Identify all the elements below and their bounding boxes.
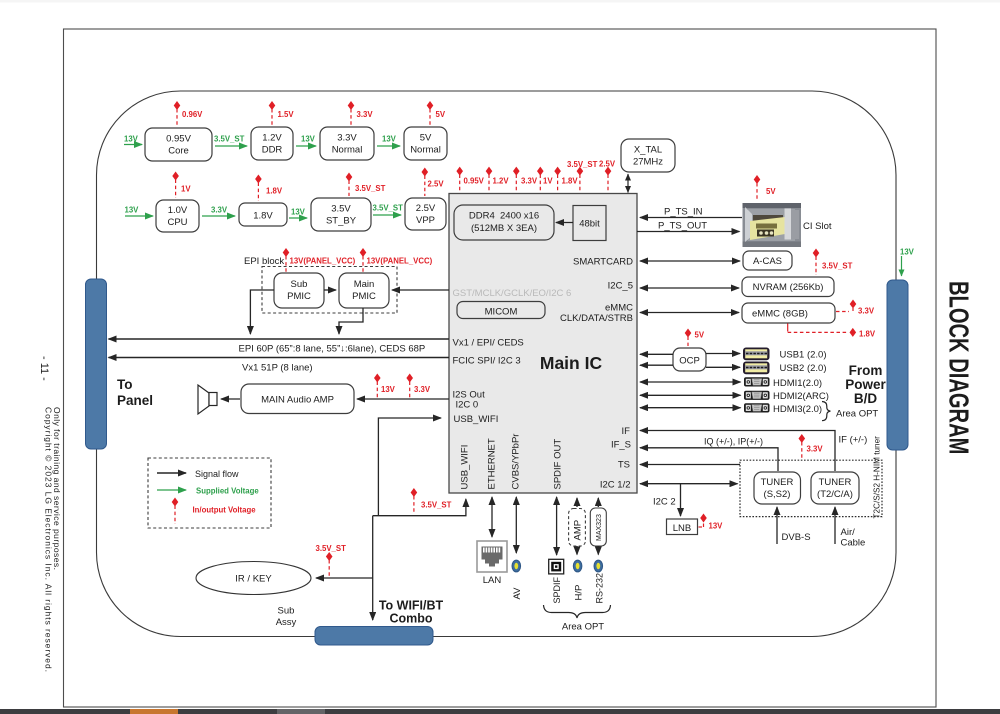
svg-text:DVB-S: DVB-S: [782, 532, 811, 543]
voltage diamond 0.96V: [174, 101, 203, 126]
block 3.5V ST_BY: [311, 198, 371, 231]
svg-text:P_TS_OUT: P_TS_OUT: [658, 221, 707, 232]
block Sub PMIC: [274, 273, 324, 308]
svg-text:13V: 13V: [381, 385, 396, 394]
svg-text:MAX323: MAX323: [596, 514, 603, 541]
voltage diamond 3.5V_ST nvram: [813, 249, 853, 276]
left board connector (To Panel): [86, 279, 107, 449]
svg-text:3.5V_ST: 3.5V_ST: [214, 135, 245, 144]
svg-text:HDMI2(ARC): HDMI2(ARC): [773, 391, 829, 402]
svg-text:5V: 5V: [436, 110, 446, 119]
block 0.95V Core: [145, 128, 212, 161]
block OCP: [673, 348, 706, 371]
svg-text:CI Slot: CI Slot: [803, 221, 832, 232]
HDMI3 connector icon: [744, 403, 770, 412]
voltage diamond 3.5V_ST wifi: [411, 488, 452, 514]
SPDIF optical jack: [549, 559, 564, 574]
svg-text:IF: IF: [622, 426, 631, 437]
LAN connector icon: [477, 541, 507, 572]
AMP dashed block: [569, 509, 586, 547]
svg-text:(T2/C/A): (T2/C/A): [817, 489, 853, 500]
wire CVBS to AV jack (double arrow): [515, 497, 517, 553]
voltage diamond 3.5V_ST row2: [346, 173, 386, 197]
AV jack: [512, 560, 521, 572]
svg-text:SMARTCARD: SMARTCARD: [573, 257, 633, 268]
svg-text:Sub: Sub: [278, 606, 295, 617]
wire IC to MAX323: [597, 498, 599, 507]
bottom board connector (Sub Assy): [315, 627, 433, 646]
svg-text:TUNER: TUNER: [761, 477, 794, 488]
block 3.3V Normal: [320, 127, 374, 160]
HDMI1 connector icon: [744, 377, 770, 386]
legend supplied voltage: [157, 487, 259, 496]
wire 48bit to DDR4: [556, 222, 573, 224]
svg-text:5V: 5V: [420, 133, 432, 144]
Area OPT brace bottom: [544, 605, 611, 618]
svg-text:Main: Main: [354, 279, 375, 290]
svg-text:DDR: DDR: [262, 145, 283, 156]
svg-text:1.8V: 1.8V: [266, 187, 283, 196]
svg-text:1.0V: 1.0V: [168, 205, 188, 216]
svg-text:Normal: Normal: [410, 145, 441, 156]
CI Slot photo: [743, 203, 802, 247]
svg-text:3.3V: 3.3V: [521, 177, 538, 186]
svg-text:2.5V: 2.5V: [428, 180, 445, 189]
svg-text:3.5V_ST: 3.5V_ST: [567, 160, 598, 169]
voltage diamond 2.5V ic: [599, 160, 616, 193]
svg-text:Supplied Voltage: Supplied Voltage: [196, 487, 259, 496]
wire OCP to IC line1: [640, 353, 673, 355]
wire OCP to USB1: [706, 353, 740, 355]
svg-text:3.5V_ST: 3.5V_ST: [421, 501, 452, 510]
wire Main IC to AMP: [357, 398, 449, 400]
wire HDMI1 (double arrow): [640, 381, 741, 383]
wire P_TS_OUT: [637, 221, 740, 232]
svg-text:(S,S2): (S,S2): [764, 489, 791, 500]
svg-text:3.5V_ST: 3.5V_ST: [355, 184, 386, 193]
svg-text:USB_WIFI: USB_WIFI: [460, 445, 471, 490]
supplied 3.3V arrow CPU to 1.8V: [202, 206, 235, 217]
svg-text:FCIC SPI/ I2C 3: FCIC SPI/ I2C 3: [453, 356, 521, 367]
block 1.2V DDR: [251, 127, 293, 160]
wire USB_WIFI from IC side: [378, 418, 441, 516]
Area OPT brace right: [822, 402, 830, 421]
block Main PMIC: [339, 273, 389, 308]
svg-text:Only for training and service: Only for training and service purposes.: [52, 407, 62, 570]
svg-text:Vx1 / EPI/ CEDS: Vx1 / EPI/ CEDS: [453, 338, 524, 349]
wire I2C 1/2 (double arrow): [640, 483, 738, 485]
13V green arrow into right connector: [900, 248, 915, 277]
svg-text:13V(PANEL_VCC): 13V(PANEL_VCC): [290, 257, 356, 266]
voltage diamond 5V: [427, 101, 446, 125]
svg-text:Copyright © 2023 LG Electronic: Copyright © 2023 LG Electronics Inc. All…: [44, 407, 54, 672]
svg-text:Area OPT: Area OPT: [562, 622, 604, 633]
svg-text:IF_S: IF_S: [611, 440, 631, 451]
block 2.5V VPP: [405, 198, 446, 230]
svg-text:TUNER: TUNER: [819, 477, 852, 488]
svg-text:13V: 13V: [709, 522, 724, 531]
svg-text:13V: 13V: [124, 135, 139, 144]
svg-text:CPU: CPU: [167, 217, 187, 228]
svg-text:RS-232: RS-232: [595, 573, 605, 604]
voltage diamond 3.5V_ST ic: [567, 160, 598, 192]
svg-text:3.5V: 3.5V: [331, 204, 351, 215]
wire OCP to USB2: [706, 366, 740, 368]
voltage diamond 13V lnb: [699, 514, 724, 531]
svg-text:5V: 5V: [695, 331, 705, 340]
svg-text:SPDIF OUT: SPDIF OUT: [553, 439, 564, 490]
To WIFI/BT Combo label: [379, 599, 444, 626]
svg-text:I2C_5: I2C_5: [608, 281, 633, 292]
wire SMARTCARD to A-CAS (double arrow): [640, 260, 740, 262]
svg-text:1V: 1V: [543, 177, 553, 186]
supplied 13V arrow DDR to 3.3V Normal: [296, 135, 316, 147]
supplied 13V arrow 1.8V to ST_BY: [289, 208, 307, 219]
voltage diamond 1V: [172, 172, 191, 199]
HDMI2 connector icon: [744, 391, 770, 400]
svg-text:PMIC: PMIC: [352, 291, 376, 302]
svg-text:Area OPT: Area OPT: [836, 409, 878, 420]
svg-text:3.3V: 3.3V: [337, 133, 357, 144]
svg-text:Power: Power: [845, 377, 886, 392]
svg-text:LAN: LAN: [483, 575, 502, 586]
svg-text:LNB: LNB: [673, 523, 691, 534]
svg-text:1V: 1V: [181, 185, 191, 194]
svg-text:Combo: Combo: [389, 612, 432, 626]
svg-text:B/D: B/D: [854, 391, 878, 406]
svg-text:GST/MCLK/GCLK/EO/I2C 6: GST/MCLK/GCLK/EO/I2C 6: [453, 288, 572, 299]
supplied 3.5V_ST arrow Core to DDR: [214, 135, 247, 147]
svg-text:1.8V: 1.8V: [859, 330, 876, 339]
svg-text:3.3V: 3.3V: [414, 385, 431, 394]
block 1.8V: [239, 203, 287, 226]
svg-text:13V(PANEL_VCC): 13V(PANEL_VCC): [367, 257, 433, 266]
svg-text:- 11 -: - 11 -: [38, 356, 50, 381]
svg-text:Cable: Cable: [841, 538, 866, 549]
svg-text:IR / KEY: IR / KEY: [235, 574, 272, 585]
svg-text:13V: 13V: [382, 135, 397, 144]
svg-text:H/P: H/P: [574, 585, 585, 601]
wire P_TS_IN: [640, 207, 742, 218]
svg-text:I2C 1/2: I2C 1/2: [600, 480, 631, 491]
svg-text:(512MB X 3EA): (512MB X 3EA): [471, 223, 537, 234]
voltage diamond 3.5V_ST irkey: [316, 544, 347, 576]
pin label eMMC CLK/DATA/STRB: [560, 303, 633, 325]
svg-text:IQ (+/-), IP(+/-): IQ (+/-), IP(+/-): [704, 437, 763, 447]
voltage diamond 1.8V row2: [255, 175, 283, 202]
wire I2C2 branch to LNB: [653, 484, 681, 516]
svg-text:BLOCK DIAGRAM: BLOCK DIAGRAM: [943, 281, 974, 454]
svg-text:1.8V: 1.8V: [253, 211, 273, 222]
voltage diamond 3.3V tuner: [799, 434, 824, 459]
wire MAX323 to RS-232 jack: [597, 546, 599, 555]
speaker icon: [198, 385, 217, 414]
svg-text:Sub: Sub: [291, 279, 308, 290]
svg-text:CVBS/YPbPr: CVBS/YPbPr: [511, 434, 522, 490]
legend dashed box: [148, 458, 271, 528]
wire AMP block to HP jack: [576, 546, 578, 555]
block TUNER (T2/C/A): [811, 472, 859, 504]
voltage diamond 3.3V amp: [406, 374, 430, 398]
48bit block: [573, 206, 606, 241]
EPI 60P bus: [109, 339, 450, 355]
DDR4 block: [454, 205, 554, 240]
wire Main IC to Main PMIC: [392, 289, 449, 291]
voltage diamond 1.8V ic: [554, 167, 578, 192]
board outline: [97, 91, 897, 637]
voltage diamond 1V ic: [537, 167, 553, 192]
svg-text:PMIC: PMIC: [287, 291, 311, 302]
USB1 connector icon: [743, 348, 770, 361]
voltage diamond 3.3V emmc: [836, 300, 875, 316]
wire AMP to speaker: [221, 398, 240, 400]
svg-text:13V: 13V: [301, 135, 316, 144]
wire TS: [640, 464, 740, 466]
bottom dark bar: [0, 709, 1000, 714]
block TUNER (S,S2): [754, 472, 801, 504]
svg-text:A-CAS: A-CAS: [753, 256, 782, 267]
svg-text:1.8V: 1.8V: [562, 177, 579, 186]
svg-text:3.5V_ST: 3.5V_ST: [373, 204, 404, 213]
svg-text:MAIN Audio AMP: MAIN Audio AMP: [261, 395, 334, 406]
svg-text:To: To: [117, 377, 133, 392]
svg-text:3.3V: 3.3V: [357, 110, 374, 119]
svg-text:eMMC (8GB): eMMC (8GB): [752, 309, 808, 320]
svg-text:USB_WIFI: USB_WIFI: [454, 414, 499, 425]
svg-text:USB1 (2.0): USB1 (2.0): [780, 350, 827, 361]
block LNB: [667, 519, 698, 535]
svg-text:In/output Voltage: In/output Voltage: [193, 506, 257, 515]
voltage diamond 1.8V emmc: [788, 324, 876, 339]
wire HDMI2 (double arrow): [640, 394, 741, 396]
Main IC body: [449, 194, 637, 494]
NIM tuner dotted box: [740, 460, 882, 516]
svg-text:3.3V: 3.3V: [858, 307, 875, 316]
svg-text:3.5V_ST: 3.5V_ST: [822, 262, 853, 271]
wire ETHERNET to LAN (double arrow): [491, 497, 493, 537]
svg-text:T2C/S/S2 H-NIM tuner: T2C/S/S2 H-NIM tuner: [873, 436, 882, 519]
supplied 13V arrow 3.3V to 5V Normal: [377, 135, 400, 147]
right board connector (From Power B/D): [887, 280, 908, 450]
wire OCP to IC line2: [640, 364, 673, 366]
supplied 3.5V_ST arrow ST_BY to VPP: [373, 204, 404, 216]
block NVRAM: [742, 277, 834, 297]
voltage diamond 3.3V ic: [513, 167, 538, 192]
svg-text:MICOM: MICOM: [485, 307, 518, 318]
svg-text:3.3V: 3.3V: [211, 206, 228, 215]
svg-text:0.95V: 0.95V: [166, 134, 191, 145]
svg-text:EPI 60P (65”:8 lane, 55”↓:6lan: EPI 60P (65”:8 lane, 55”↓:6lane), CEDS 6…: [239, 344, 426, 355]
svg-text:TS: TS: [618, 460, 630, 471]
supplied 13V arrow into Core: [124, 135, 142, 145]
svg-text:I2C 0: I2C 0: [456, 400, 479, 411]
wire DVB-S input: [777, 507, 811, 544]
legend signal flow: [157, 469, 239, 479]
wire SPDIF to jack (double arrow): [556, 497, 558, 555]
voltage diamond 1.5V: [269, 101, 295, 125]
supplied 13V arrow into CPU: [125, 206, 154, 217]
wire to IR/KEY: [316, 577, 373, 579]
svg-text:2.5V: 2.5V: [599, 160, 616, 169]
svg-text:P_TS_IN: P_TS_IN: [664, 207, 703, 218]
svg-text:OCP: OCP: [679, 356, 700, 367]
svg-text:27MHz: 27MHz: [633, 157, 663, 168]
svg-text:2.5V: 2.5V: [416, 203, 436, 214]
wire eMMC bus (double arrow): [640, 312, 739, 314]
voltage diamond 13V(PANEL_VCC) main: [360, 248, 433, 272]
svg-text:Panel: Panel: [117, 393, 153, 408]
wire HDMI3 (double arrow): [640, 407, 741, 409]
svg-text:Normal: Normal: [332, 145, 363, 156]
svg-text:NVRAM (256Kb): NVRAM (256Kb): [753, 282, 824, 293]
wire IC to AMP block: [576, 498, 578, 507]
svg-text:EPI block: EPI block: [244, 256, 284, 267]
H/P jack: [573, 560, 582, 572]
svg-text:AMP: AMP: [573, 520, 584, 541]
voltage diamond 1.2V: [486, 167, 510, 192]
svg-text:X_TAL: X_TAL: [634, 145, 662, 156]
legend in/output voltage: [172, 498, 257, 525]
wire Main PMIC to EPI bus: [339, 308, 363, 334]
svg-text:0.96V: 0.96V: [182, 110, 203, 119]
To Panel label: [117, 377, 153, 408]
svg-text:To WIFI/BT: To WIFI/BT: [379, 599, 444, 613]
block 5V Normal: [404, 127, 447, 160]
svg-text:3.5V_ST: 3.5V_ST: [316, 544, 347, 553]
svg-text:48bit: 48bit: [579, 219, 600, 230]
X_TAL 27MHz block: [621, 139, 675, 172]
svg-text:Main IC: Main IC: [540, 353, 603, 373]
block eMMC: [742, 303, 835, 323]
svg-text:ETHERNET: ETHERNET: [487, 438, 498, 489]
svg-text:USB2 (2.0): USB2 (2.0): [780, 363, 827, 374]
wire X_TAL to Main IC (double arrow): [627, 174, 629, 193]
svg-text:I2C 2: I2C 2: [653, 497, 676, 508]
block MAIN Audio AMP: [241, 384, 354, 414]
svg-text:Vx1 51P (8 lane): Vx1 51P (8 lane): [242, 363, 313, 374]
IR / KEY ellipse: [196, 562, 311, 595]
voltage diamond 5V ci: [754, 175, 777, 201]
wire Sub PMIC to Main PMIC: [324, 289, 336, 291]
voltage diamond 13V(PANEL_VCC) sub: [283, 248, 356, 272]
MICOM block: [457, 302, 545, 319]
wire down to WIFI/BT connector: [372, 516, 374, 620]
EPI block dashed outline: [262, 267, 397, 314]
block A-CAS: [743, 251, 792, 270]
svg-text:HDMI3(2.0): HDMI3(2.0): [773, 404, 822, 415]
voltage diamond 5V ocp: [685, 329, 705, 347]
Sub Assy label: [276, 606, 297, 629]
svg-text:IF (+/-): IF (+/-): [839, 435, 868, 446]
wire I2C_5 to NVRAM (double arrow): [640, 287, 739, 289]
RS-232 jack: [594, 560, 603, 572]
USB2 connector icon: [743, 362, 770, 375]
svg-text:HDMI1(2.0): HDMI1(2.0): [773, 378, 822, 389]
voltage diamond 13V amp: [374, 374, 396, 398]
svg-text:13V: 13V: [900, 248, 915, 257]
Vx1 51P bus: [109, 358, 450, 374]
wire IF_S to tuner S2: [640, 437, 778, 472]
voltage diamond 0.95V: [456, 167, 484, 192]
svg-text:Core: Core: [168, 146, 189, 157]
svg-text:13V: 13V: [125, 206, 140, 215]
svg-text:5V: 5V: [766, 187, 776, 196]
top page strip: [0, 0, 1000, 3]
bottom bar orange segment: [130, 709, 178, 714]
MAX323 block: [590, 508, 606, 546]
svg-text:DDR4 2400 x16: DDR4 2400 x16: [469, 211, 539, 222]
svg-text:Air/: Air/: [841, 527, 856, 538]
svg-text:1.5V: 1.5V: [278, 110, 295, 119]
bottom bar gray segment: [277, 709, 325, 714]
svg-text:Assy: Assy: [276, 617, 297, 628]
svg-text:CLK/DATA/STRB: CLK/DATA/STRB: [560, 313, 633, 324]
svg-text:SPDIF: SPDIF: [552, 576, 562, 603]
svg-text:3.3V: 3.3V: [807, 445, 824, 454]
svg-text:1.2V: 1.2V: [493, 177, 510, 186]
block 1.0V CPU: [156, 200, 199, 232]
wire Sub PMIC to EPI bus: [250, 290, 274, 334]
svg-text:0.95V: 0.95V: [464, 177, 485, 186]
voltage diamond 3.3V: [348, 101, 374, 125]
svg-text:AV: AV: [512, 587, 523, 600]
svg-text:VPP: VPP: [416, 215, 435, 226]
svg-text:From: From: [849, 363, 883, 378]
svg-text:ST_BY: ST_BY: [326, 216, 357, 227]
svg-text:1.2V: 1.2V: [262, 133, 282, 144]
From Power B/D label: [845, 363, 886, 406]
wire wifi horizontal to IC bottom: [373, 499, 466, 516]
svg-text:Signal flow: Signal flow: [195, 469, 239, 479]
wire IF to tuner T2: [640, 431, 867, 472]
svg-text:13V: 13V: [291, 208, 306, 217]
voltage diamond 2.5V row2: [422, 168, 445, 197]
wire Air/Cable input: [835, 507, 865, 549]
svg-text:eMMC: eMMC: [605, 303, 633, 314]
